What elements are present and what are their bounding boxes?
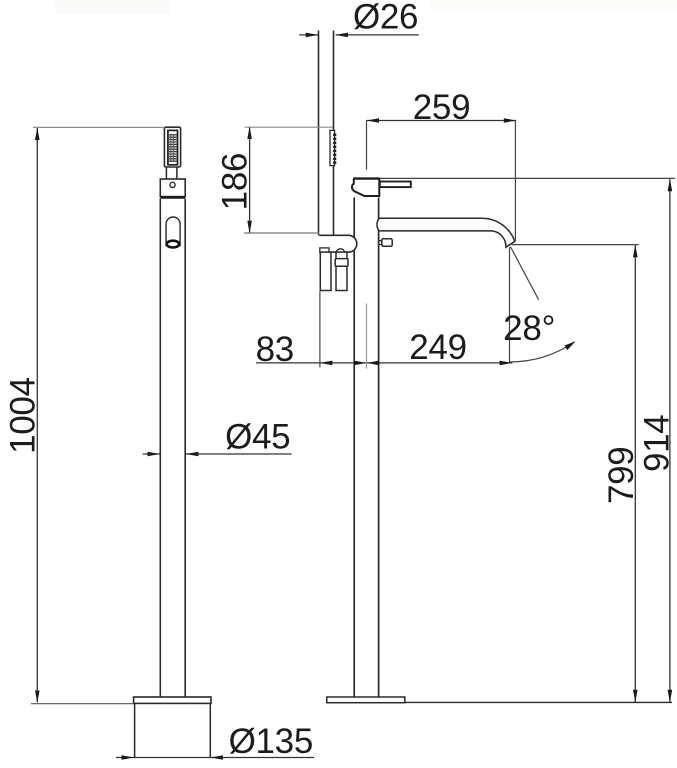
Ø45 right arrow: [186, 452, 198, 457]
svg-text:259: 259: [413, 88, 471, 127]
28° arc arrow: [565, 341, 576, 350]
dim 259 line: [367, 120, 517, 122]
dim Ø45 line: [143, 453, 292, 455]
base box sides: [135, 703, 211, 757]
hand shower handle tube: [319, 31, 334, 236]
dim Ø26 line: [299, 34, 419, 36]
faucet column: [354, 198, 378, 698]
floor line: [405, 701, 672, 703]
28° leader diagonal: [510, 247, 538, 300]
dim 799 extension top: [512, 244, 639, 246]
dim 259 extension left / faucet axis upper: [366, 121, 368, 170]
dim 83 extension left: [319, 291, 321, 367]
holder block: [160, 179, 185, 197]
handle chamfer line: [355, 191, 365, 195]
dim 1004 line: [36, 128, 38, 703]
right valve dome: [336, 249, 344, 252]
spray face strip (side): [330, 130, 335, 165]
259 right arrow: [504, 118, 516, 123]
249 left arrow: [367, 361, 379, 366]
dim 249 extension right (outlet vertical): [509, 247, 511, 363]
83 left arrow: [320, 361, 332, 366]
base plate: [134, 697, 211, 703]
svg-text:799: 799: [602, 447, 641, 505]
svg-text:Ø135: Ø135: [229, 722, 313, 761]
Ø26 right arrow: [336, 33, 348, 38]
faucet axis extension: [366, 304, 368, 369]
799 top arrow: [633, 245, 638, 257]
spray face texture: [169, 134, 177, 162]
holder thick bottom line: [160, 196, 185, 198]
dim 259 extension right: [514, 121, 516, 242]
left check valve: [320, 252, 331, 290]
holder screw circle: [170, 182, 175, 187]
column tube: [160, 199, 185, 697]
259 left arrow: [367, 118, 379, 123]
Ø45 left arrow: [148, 452, 160, 457]
1004 bottom arrow: [35, 691, 40, 703]
connector bell (white filled, covers column left edge): [319, 235, 357, 252]
shower holder box on column: [379, 241, 382, 245]
shower head spray face frame: [168, 130, 178, 164]
base plate: [327, 697, 405, 703]
svg-text:83: 83: [256, 330, 294, 369]
dim 914 extension top: [353, 177, 380, 179]
lever bar: [380, 182, 411, 188]
bell left tab: [320, 248, 329, 252]
799 bottom arrow: [633, 690, 638, 702]
Ø135 right arrow: [211, 755, 223, 760]
svg-text:914: 914: [637, 415, 676, 473]
dim Ø135 line: [116, 757, 314, 759]
28° arc: [510, 342, 575, 362]
svg-text:186: 186: [215, 153, 254, 211]
dim 799 line: [634, 245, 636, 702]
svg-text:1004: 1004: [3, 377, 42, 454]
right check valve: [336, 252, 347, 290]
svg-text:249: 249: [409, 328, 467, 367]
spray strip ticks: [333, 134, 336, 164]
spout (white filled, covers column right edge): [377, 218, 515, 247]
outlet capsule slot: [166, 217, 180, 246]
faint cropped remnants at top: [430, 0, 677, 11]
dim 186 line: [249, 127, 251, 233]
outlet ellipse: [167, 241, 179, 248]
dim 83-249 line: [256, 362, 512, 364]
186 top arrow: [247, 127, 252, 139]
shower handle neck: [166, 167, 177, 179]
dim 186 extension top: [245, 126, 333, 128]
dim 1004 extension top: [33, 126, 164, 128]
914 bottom arrow: [668, 690, 673, 702]
shower head outer body: [164, 127, 180, 167]
1004 top arrow: [35, 128, 40, 140]
dim 1004 extension bottom: [31, 703, 134, 705]
handle cap: [352, 179, 379, 196]
svg-text:Ø45: Ø45: [225, 418, 290, 457]
83 right arrow: [354, 361, 366, 366]
svg-text:28°: 28°: [503, 309, 555, 348]
249 right arrow: [500, 361, 512, 366]
914 top arrow: [668, 179, 673, 191]
svg-text:Ø26: Ø26: [353, 0, 418, 36]
186 bottom arrow: [247, 221, 252, 233]
Ø135 left arrow: [122, 755, 134, 760]
dim 914 line: [669, 179, 671, 702]
Ø26 left arrow: [306, 33, 318, 38]
dim 186 extension bottom: [244, 232, 319, 234]
right valve collar: [335, 259, 348, 267]
